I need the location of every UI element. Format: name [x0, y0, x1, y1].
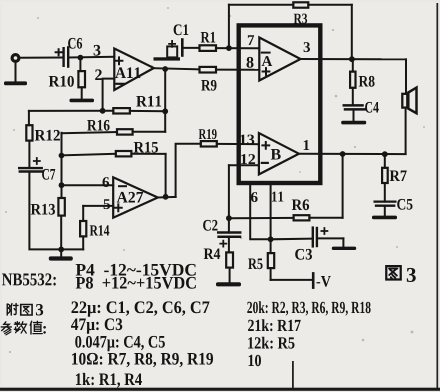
value line 20k	[247, 301, 370, 315]
input terminal J	[12, 55, 19, 62]
pin 5 wire A27	[83, 205, 113, 207]
capacitor C3	[271, 238, 312, 241]
pin 11 wire	[270, 183, 272, 253]
label A11	[115, 67, 140, 78]
border frame	[436, 3, 438, 388]
label R1	[201, 32, 216, 43]
capacitor C7	[34, 158, 40, 164]
resistor R19	[201, 141, 217, 146]
junction	[163, 194, 169, 200]
label C3	[295, 249, 312, 260]
capacitor C5	[375, 200, 396, 202]
junction	[349, 56, 355, 62]
wire output pin 3	[301, 58, 407, 60]
junction	[100, 108, 106, 114]
wire to pin 7	[216, 47, 259, 49]
ground	[15, 62, 17, 82]
label R6	[292, 199, 309, 210]
wire ladder	[61, 133, 63, 198]
value line 22u	[72, 301, 210, 316]
wire	[164, 69, 166, 111]
label C4	[365, 102, 379, 113]
ground	[341, 121, 366, 125]
label A27	[117, 192, 143, 203]
junction	[268, 236, 274, 242]
ground	[60, 249, 62, 256]
label R3	[294, 14, 307, 24]
junction	[226, 215, 232, 221]
pin 8 label U1	[247, 57, 254, 68]
pin 6 wire	[250, 183, 270, 239]
pin 6 wire A27	[62, 184, 114, 186]
pin 3 label U1	[304, 42, 310, 52]
resistor R11	[113, 108, 130, 113]
label R9	[201, 80, 216, 91]
wire A11 output	[154, 68, 200, 69]
op-amp A (U1a)	[259, 38, 300, 81]
pin 12 label U1	[241, 154, 255, 164]
wire	[29, 172, 83, 250]
label R7	[390, 171, 407, 182]
wire	[229, 4, 293, 6]
junction	[59, 182, 65, 188]
text P4 supply	[76, 264, 196, 276]
junction	[58, 247, 64, 253]
label R16	[87, 120, 109, 131]
resistor R12	[28, 111, 30, 125]
text colon	[43, 326, 46, 334]
resistor R8	[352, 59, 354, 71]
wire	[351, 5, 353, 59]
text attached-figure glyphs	[7, 304, 32, 315]
pin 13 label U1	[240, 135, 254, 145]
ground	[332, 247, 356, 250]
ground	[372, 216, 397, 220]
wire output pin 1 rail	[299, 153, 406, 155]
value line 12k	[248, 337, 294, 349]
label R19	[199, 129, 217, 139]
label C7	[42, 169, 55, 180]
wire	[228, 5, 230, 48]
pin 2 label A11	[95, 69, 102, 80]
pin 8 wire from R9	[216, 69, 259, 71]
resistor R10	[79, 58, 81, 72]
value line 10ohm	[72, 353, 213, 367]
junction	[340, 151, 346, 157]
label R12	[35, 130, 60, 141]
node	[78, 55, 84, 61]
label R14	[90, 225, 110, 235]
resistor R7	[384, 154, 386, 168]
op-amp B (U1b)	[259, 133, 299, 174]
label R5	[248, 259, 262, 270]
pin 6 label bottom	[251, 192, 258, 202]
-V terminal	[312, 273, 315, 287]
label C5	[397, 199, 412, 210]
ground	[70, 99, 95, 103]
value line 1k	[76, 373, 142, 388]
label R15	[134, 142, 158, 153]
value label C6	[68, 38, 82, 49]
node	[162, 66, 168, 72]
resistor R16	[117, 129, 133, 134]
wire to -V	[271, 279, 313, 281]
wire	[68, 56, 114, 59]
resistor R6	[342, 154, 344, 218]
pin 11 label bottom	[272, 192, 283, 202]
value line 47u	[71, 318, 122, 333]
pin 7 label U1	[248, 35, 254, 45]
pin 1 label U1	[304, 140, 310, 150]
text NB5532	[2, 273, 56, 285]
pin 12 wire	[229, 164, 259, 166]
capacitor C1	[154, 57, 181, 60]
wire	[176, 144, 201, 197]
junction	[226, 45, 232, 51]
capacitor C6	[56, 49, 62, 55]
op-amp A11	[114, 49, 154, 91]
resistor R9	[200, 67, 217, 73]
text figure-3 caption glyph	[386, 266, 400, 279]
speaker BL	[405, 59, 407, 94]
wire	[184, 47, 200, 49]
label R11	[136, 96, 161, 107]
IC U1 box	[239, 25, 321, 183]
label R10	[49, 76, 74, 87]
capacitor C2	[218, 231, 240, 234]
text figure 3 digit	[407, 268, 416, 282]
resistor R13	[58, 198, 64, 216]
resistor R15	[165, 154, 167, 197]
label R4	[204, 249, 221, 260]
wire	[308, 4, 352, 6]
resistor R5	[268, 253, 274, 268]
text parameter-values glyphs	[1, 321, 42, 335]
pin 6 label A27	[103, 177, 110, 187]
resistor R14	[82, 206, 84, 221]
label C2	[203, 220, 217, 231]
wire	[228, 165, 230, 232]
wire	[318, 237, 343, 239]
label op-amp A	[262, 56, 273, 66]
resistor R4	[226, 252, 233, 267]
value line 10 partial	[249, 355, 261, 367]
capacitor C4	[344, 104, 363, 107]
op-amp A27	[113, 177, 158, 217]
text attached-figure digit 3	[36, 304, 43, 316]
label R13	[31, 204, 55, 215]
junction	[59, 153, 65, 159]
wire A27 output	[158, 196, 176, 199]
junction	[162, 108, 168, 114]
net -V label	[317, 276, 331, 287]
pin 3 label A11	[94, 45, 101, 56]
junction	[382, 151, 388, 157]
resistor R3	[293, 2, 308, 7]
pin 2 wire	[103, 79, 115, 111]
ground	[216, 282, 241, 286]
value line 21k	[248, 319, 301, 331]
value line 0.047u	[75, 336, 165, 351]
text P8 supply	[76, 277, 196, 289]
resistor R1	[200, 45, 217, 51]
pin 13 wire	[217, 143, 259, 145]
wire	[20, 57, 64, 59]
wire	[229, 217, 294, 219]
label C1	[174, 24, 189, 35]
label R8	[359, 76, 375, 87]
label op-amp B	[271, 149, 281, 160]
pin 5 label A27	[104, 199, 110, 209]
